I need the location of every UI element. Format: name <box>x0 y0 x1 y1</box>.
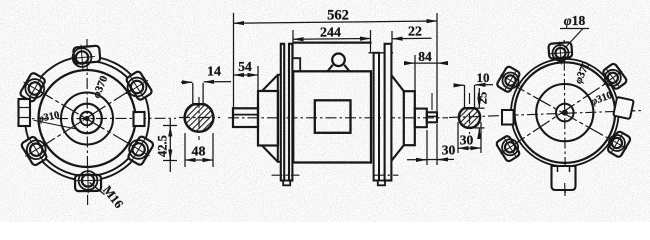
dimension 562 overall length <box>234 8 438 166</box>
wire: right view horizontal centerline <box>449 111 642 118</box>
right end view of motor flange <box>449 13 642 196</box>
right shaft extension <box>427 112 437 122</box>
right end bell cone <box>391 75 403 91</box>
wire: foot mounting dash lines <box>272 174 300 176</box>
dimension 42.5 <box>155 119 177 172</box>
shaft circle right view <box>556 104 574 122</box>
right bearing hub <box>404 91 415 145</box>
spigot circle left view <box>61 93 113 145</box>
inner circle right view <box>536 84 593 141</box>
shaft cross-section right (phi30 with key flat) <box>459 108 480 128</box>
terminal box <box>315 100 351 133</box>
lifting eye bolt <box>332 54 345 67</box>
dimension 30 shaft diameter right <box>458 122 481 153</box>
flange face circle left view (phi 310) <box>39 70 136 167</box>
wire: left view diagonal centerline 150deg <box>36 89 141 150</box>
bearing boss circle left view <box>72 104 102 134</box>
tab right view 0deg <box>613 97 634 119</box>
bolt hole phi18 lower-left right view <box>494 131 526 163</box>
bolt hole phi18 top right view <box>548 41 573 66</box>
wire: left stator ring step <box>292 58 300 71</box>
motor body (stator) <box>293 71 371 162</box>
label M16 with leader <box>90 183 105 195</box>
shaft circle left view <box>80 112 94 126</box>
dimension 54 left shaft length <box>234 59 259 91</box>
dimension 30 key length <box>407 130 456 165</box>
label phi18 with leader <box>560 13 589 49</box>
wire: right section vertical centerline <box>469 93 471 134</box>
wire: right shaft keyway line <box>427 115 437 117</box>
terminal tab left view 180deg <box>19 99 31 126</box>
shaft cross-section left (phi48 with key flat) <box>185 104 214 132</box>
left flange bracket <box>281 44 284 181</box>
wire: left view vertical centerline <box>86 39 89 205</box>
bolt hole M16 lower-left left view <box>18 132 54 168</box>
wire: left shaft keyway line <box>233 114 258 116</box>
wire: top silhouette line <box>292 41 371 43</box>
bolt hole M16 upper-left left view <box>17 71 52 106</box>
left end view of motor flange <box>17 39 176 211</box>
left shaft extension <box>233 108 258 127</box>
wire: keyway end tick right shaft <box>431 93 433 110</box>
wire: right stator ring step <box>369 52 394 54</box>
dimension 22 flange offset <box>392 25 432 44</box>
dimension 14 (key width) <box>181 65 231 105</box>
wire: left view horizontal centerline <box>18 117 176 119</box>
right stator ring <box>374 53 379 181</box>
dimension 25 shaft flat height right <box>471 88 490 139</box>
bolt hole phi18 lower-right right view <box>601 127 632 158</box>
bolt hole phi18 upper-left right view <box>495 65 527 97</box>
wire: section circle centerlines <box>179 117 220 119</box>
center dot right view <box>562 110 568 116</box>
bolt hole M16 upper-right left view <box>119 69 155 105</box>
bolt hole phi18 upper-right right view <box>597 62 629 94</box>
bolt hole M16 top left view <box>68 43 101 71</box>
foot tab right view bottom <box>552 166 576 190</box>
wire: left view diagonal centerline 33deg <box>38 81 145 149</box>
wire: right view diagonal centerline 149deg <box>507 82 622 147</box>
flange face circle right view <box>515 62 616 163</box>
dimension 84 right shaft length <box>408 49 445 108</box>
scan noise overlay <box>0 0 1 1</box>
dimension 48 (shaft diameter) <box>185 133 213 167</box>
wire: right view diagonal centerline 36deg <box>508 74 620 149</box>
dimension 10 key width right <box>457 70 494 108</box>
bolt hole M16 bottom left view <box>75 167 101 193</box>
left bearing hub <box>258 91 278 146</box>
tab left view 0deg <box>134 112 145 126</box>
wire: flange outer rim bridges left view <box>82 56 140 85</box>
bolt hole M16 lower-right left view <box>121 132 156 168</box>
wire: right view vertical centerline <box>564 40 565 196</box>
wire: main horizontal centerline <box>228 117 448 119</box>
right shaft shoulder <box>415 109 427 128</box>
wire: flange outer rim circle right view <box>511 59 619 167</box>
center dot left view <box>84 116 89 121</box>
tab right view 180deg <box>502 110 514 125</box>
dimension 244 body length <box>293 26 371 58</box>
left end bell cone <box>262 75 278 91</box>
right flange bracket <box>385 44 392 181</box>
